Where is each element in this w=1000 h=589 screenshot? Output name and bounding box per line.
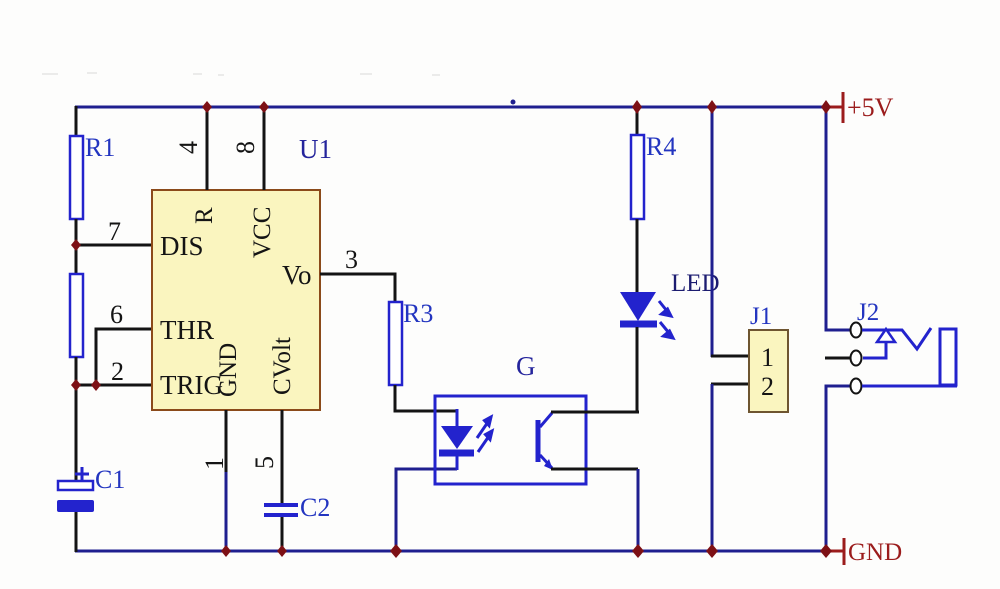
- svg-text:DIS: DIS: [160, 231, 204, 261]
- svg-text:+5V: +5V: [847, 93, 894, 122]
- transistor opto phototransistor: [538, 413, 553, 470]
- node junction pin1 rail: [221, 545, 231, 557]
- svg-text:J1: J1: [750, 303, 772, 330]
- pin J2-3 circle: [851, 379, 862, 394]
- wire THR stub: [96, 329, 152, 385]
- svg-text:7: 7: [108, 217, 121, 246]
- node junction J1 rail top: [707, 100, 717, 114]
- svg-text:5: 5: [250, 456, 279, 469]
- svg-text:2: 2: [111, 357, 124, 386]
- wire top +5V rail: [75, 106, 826, 109]
- node junction TRIG left: [71, 379, 81, 391]
- wire TRIG pin2: [76, 384, 152, 387]
- wire pin 8 stub: [263, 107, 266, 190]
- wire opto cathode to GND rail: [396, 469, 457, 551]
- wire R1 to node: [75, 219, 78, 275]
- svg-text:R1: R1: [85, 133, 115, 162]
- svg-text:6: 6: [110, 300, 123, 329]
- node junction opto-cathode rail: [390, 544, 402, 558]
- svg-text:CVolt: CVolt: [269, 337, 296, 395]
- wire pin 5 CVolt stub: [281, 410, 284, 504]
- wire J1 pin2 branch: [711, 384, 714, 551]
- svg-text:THR: THR: [160, 315, 214, 345]
- svg-text:Vo: Vo: [282, 260, 312, 290]
- svg-text:4: 4: [174, 141, 203, 154]
- wire pin 1 GND stub: [225, 410, 228, 472]
- jack sleeve body: [940, 329, 956, 385]
- wire R3 to opto anode: [395, 385, 457, 411]
- wire bottom GND rail: [75, 550, 827, 553]
- wire pin 4 stub: [206, 107, 209, 190]
- wire jack sleeve: [862, 385, 957, 388]
- svg-text:R4: R4: [646, 132, 676, 161]
- op-amp U1 555 timer body: [152, 134, 332, 410]
- svg-text:J2: J2: [857, 299, 879, 326]
- capacitor C2: [264, 493, 330, 522]
- svg-text:8: 8: [231, 141, 260, 154]
- jack ring contact triangle: [863, 329, 895, 358]
- wire jack tip: [862, 328, 931, 349]
- wire C2 to GND rail: [281, 517, 284, 552]
- wire C1 to GND rail: [75, 512, 78, 552]
- node junction THR/TRIG: [91, 379, 101, 391]
- optocoupler G box: [435, 351, 586, 484]
- svg-text:2: 2: [761, 372, 774, 401]
- svg-text:3: 3: [345, 245, 358, 274]
- wire J1 pin1 stub: [711, 355, 749, 358]
- wire opto collector to LED chain: [551, 411, 639, 414]
- node junction pin4 rail: [202, 101, 212, 113]
- LED arrows: [659, 301, 673, 338]
- svg-text:U1: U1: [299, 134, 332, 164]
- wire emitter down to GND rail: [637, 469, 640, 551]
- svg-text:GND: GND: [848, 539, 902, 566]
- wire Vo pin3: [320, 274, 395, 302]
- resistor R4: [631, 132, 676, 219]
- wire R4 to LED: [636, 219, 639, 293]
- node junction J2 rail bottom: [820, 544, 832, 558]
- node junction J2 rail top: [821, 100, 831, 114]
- wire DIS pin7: [76, 244, 152, 247]
- wire left branch top: [75, 106, 78, 137]
- diode opto LED: [439, 409, 474, 470]
- wire J1 pin2 stub: [711, 383, 749, 386]
- svg-text:C1: C1: [95, 465, 125, 494]
- svg-text:GND: GND: [215, 343, 242, 397]
- resistor R2: [70, 274, 83, 357]
- opto LED arrows: [477, 417, 492, 452]
- resistor R1: [70, 133, 115, 219]
- node junction R1/DIS: [71, 239, 81, 251]
- wire opto emitter: [551, 468, 638, 471]
- node junction pin8 rail: [259, 101, 269, 113]
- wire J2 pin2 stub: [825, 357, 850, 360]
- svg-text:R: R: [191, 207, 218, 224]
- power GND port: [827, 538, 902, 566]
- node junction C2 rail: [277, 545, 287, 557]
- wire J1 pin1 branch: [711, 107, 714, 357]
- pin J2-1 circle: [851, 323, 862, 338]
- wire LED to opto collector: [636, 327, 639, 412]
- wire pin 1 GND stub lower: [225, 472, 228, 552]
- wire J2 pin3 branch: [826, 386, 850, 551]
- capacitor C1: [57, 465, 125, 512]
- power +5V port: [826, 92, 894, 123]
- node junction J1 rail bottom: [706, 544, 718, 558]
- node stray dot on top rail: [511, 100, 516, 105]
- svg-text:1: 1: [200, 457, 229, 470]
- wire J2 pin1 branch: [826, 107, 850, 330]
- connector J1: [749, 303, 788, 412]
- svg-text:VCC: VCC: [249, 207, 276, 258]
- svg-text:TRIG: TRIG: [160, 370, 223, 400]
- svg-text:G: G: [516, 351, 536, 381]
- svg-text:1: 1: [761, 343, 774, 372]
- pin J2-2 circle: [851, 351, 862, 366]
- node junction emitter rail: [632, 544, 644, 558]
- svg-text:C2: C2: [300, 493, 330, 522]
- wire R2 to TRIG node: [75, 357, 78, 482]
- resistor R3: [389, 299, 433, 385]
- svg-text:R3: R3: [403, 299, 433, 328]
- wire R4 top stub: [636, 107, 639, 136]
- diode LED indicator: [620, 270, 720, 324]
- node junction R4 rail: [632, 100, 642, 114]
